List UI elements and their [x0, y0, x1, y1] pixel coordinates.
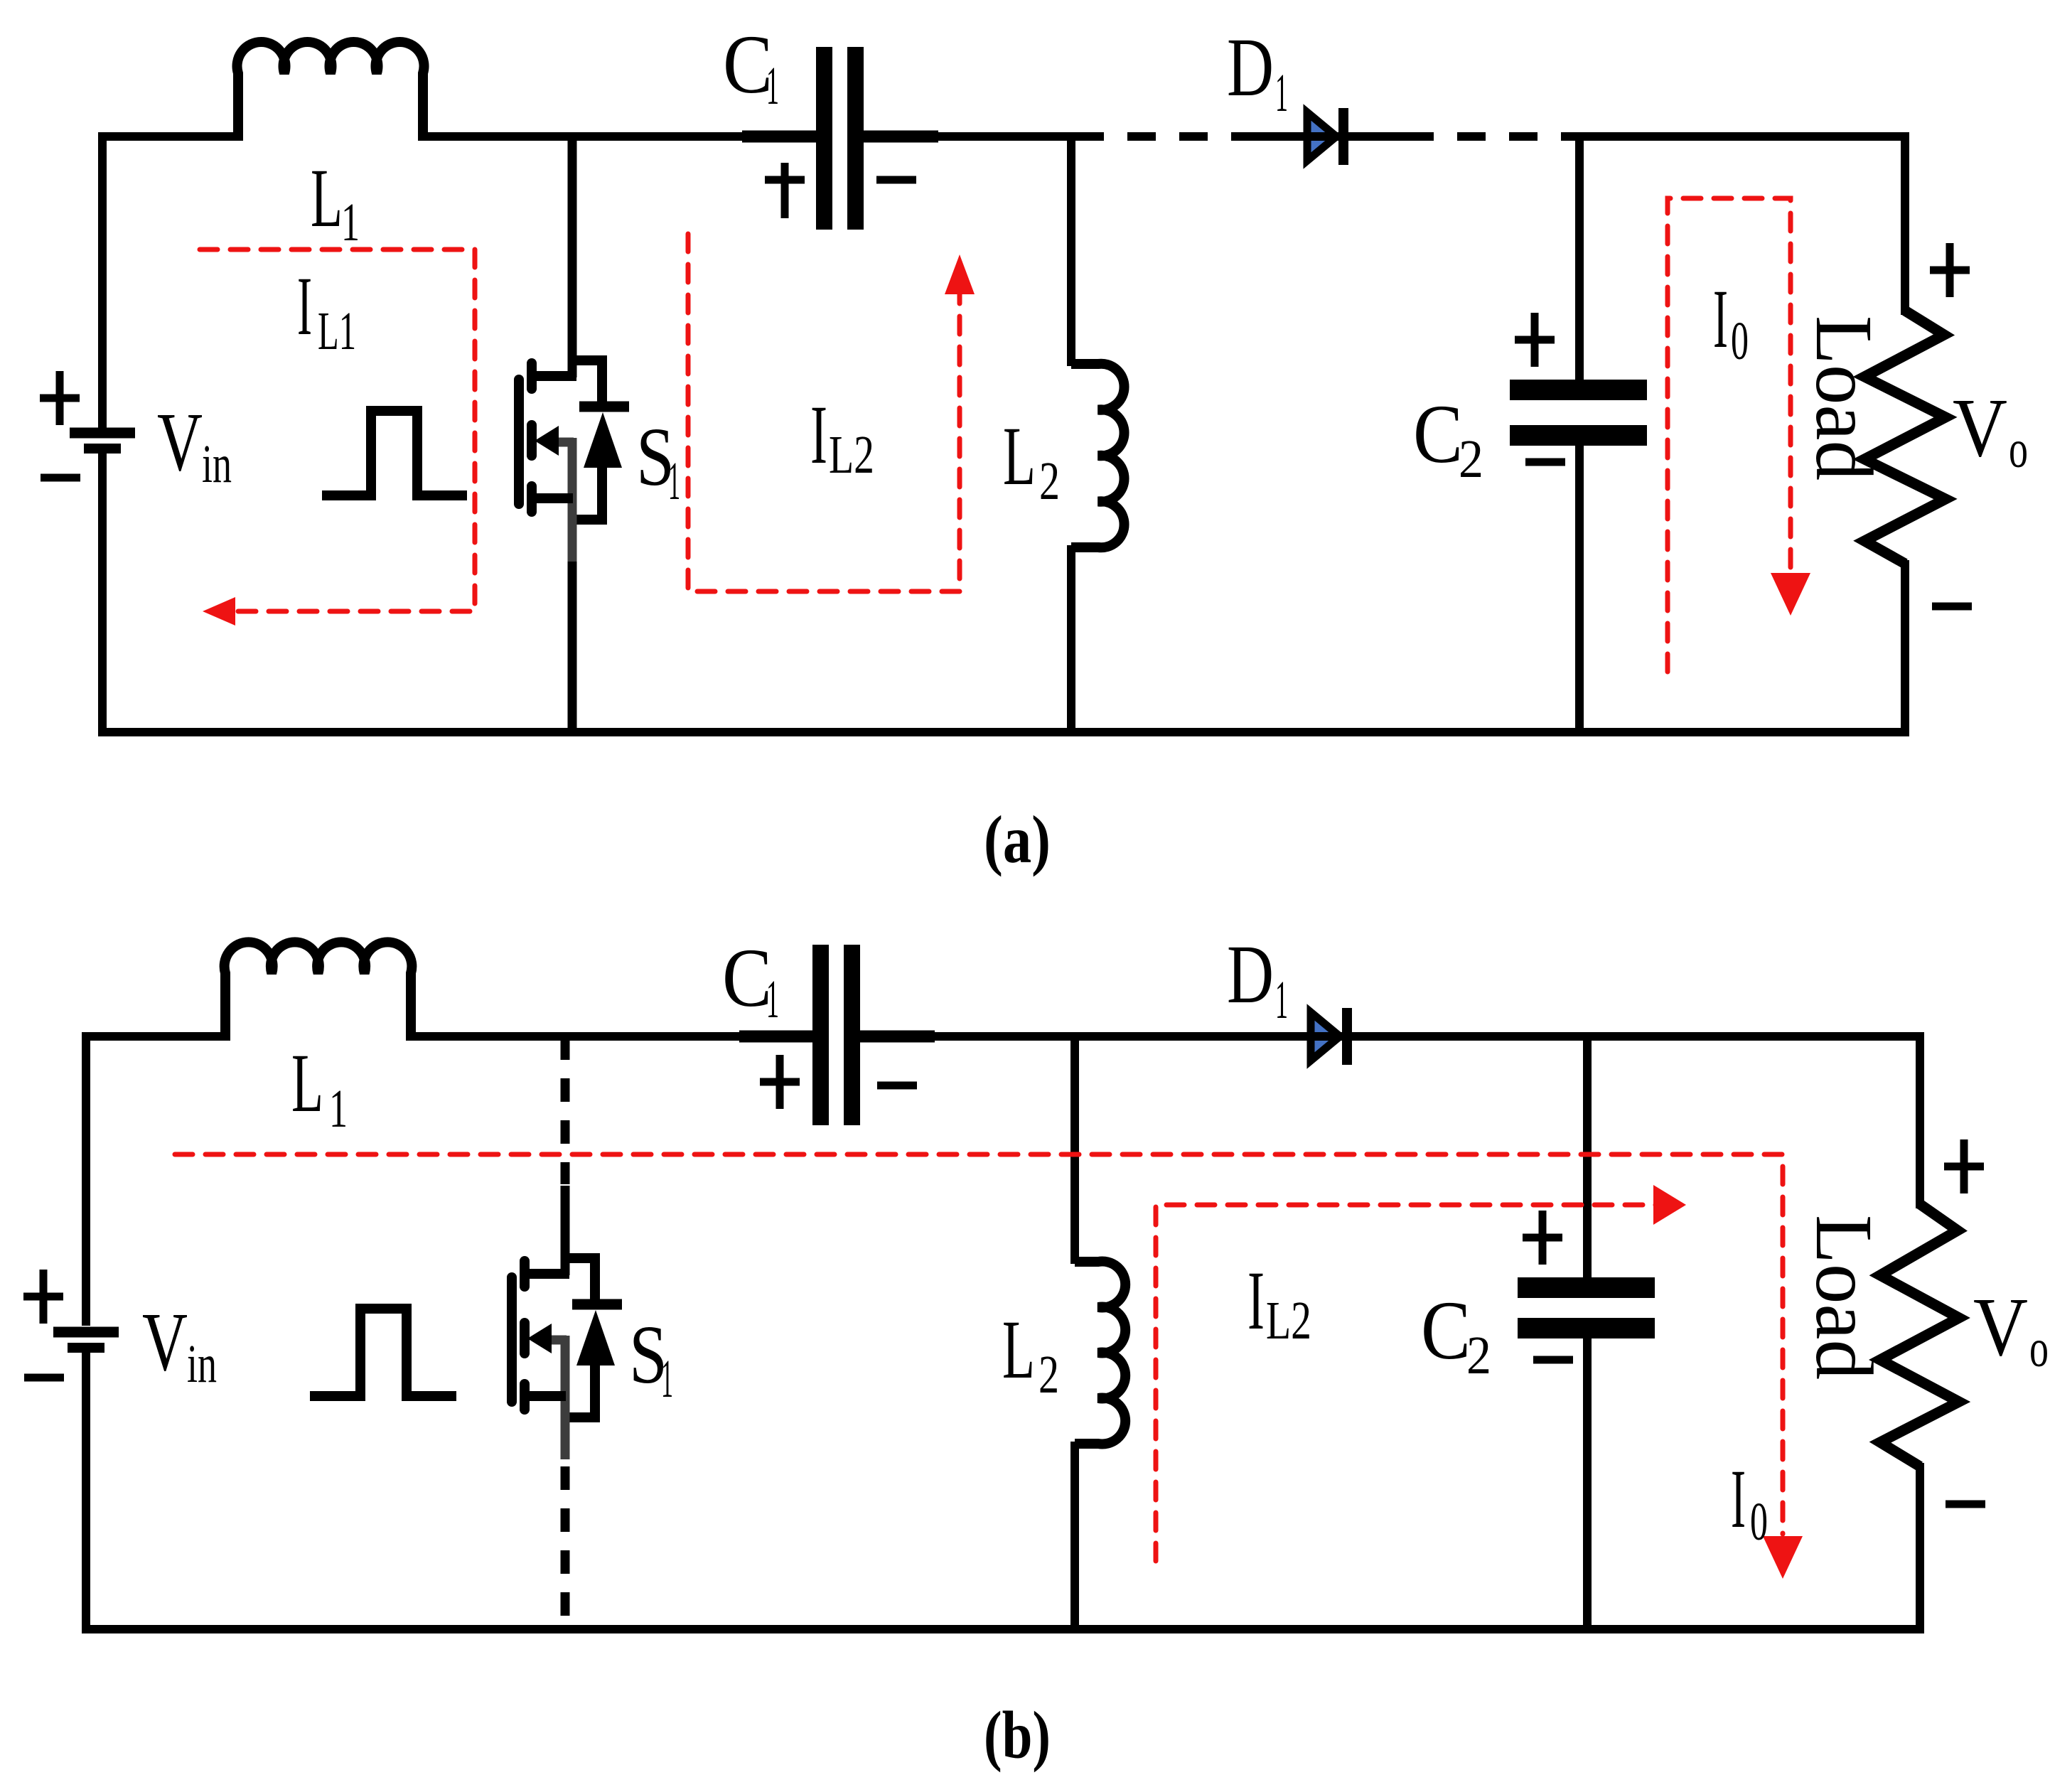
svg-text:V: V: [157, 395, 203, 488]
wire: dashed top rail, D1 to C2 node (a, no current): [1405, 132, 1572, 141]
wire: drain of S1 (a): [568, 136, 577, 377]
arrowhead of IL2 loop (a): [945, 254, 975, 294]
svg-text:I: I: [297, 259, 312, 353]
plus sign of Vo (a): [1930, 243, 1970, 297]
current loop IL2 (a), red dashed: [688, 234, 960, 591]
current loop IL1 (a), red dashed: [189, 250, 475, 611]
wire: L2 upper lead (a): [1067, 136, 1075, 366]
svg-text:L: L: [1002, 1303, 1035, 1396]
wire: load down to bottom rail, bottom rail and back to Vin - terminal (a): [102, 452, 1905, 732]
wire: L2 lower lead to bottom rail (b): [1070, 1442, 1079, 1629]
svg-text:L: L: [311, 151, 343, 245]
svg-text:o: o: [2029, 1319, 2049, 1378]
plus sign of C2 (b): [1523, 1211, 1562, 1265]
svg-text:I: I: [810, 388, 827, 481]
svg-text:1: 1: [1275, 970, 1288, 1030]
svg-text:2: 2: [1039, 1345, 1059, 1405]
wire: C2 upper lead (a): [1575, 136, 1584, 382]
wire: left vertical, Vin + terminal to top-left corner and to L1 (b): [86, 1036, 229, 1326]
svg-text:o: o: [2009, 419, 2028, 479]
minus sign of C2 (b): [1533, 1356, 1573, 1364]
svg-text:1: 1: [661, 1349, 673, 1409]
cathode bar of D1 (a): [1338, 108, 1348, 165]
svg-text:C: C: [722, 931, 772, 1024]
svg-text:(a): (a): [984, 802, 1051, 877]
minus sign of C2 (a): [1525, 458, 1565, 466]
svg-text:Load: Load: [1799, 316, 1889, 481]
wire: C1 left lead (b): [739, 1031, 812, 1043]
svg-text:L1: L1: [318, 301, 356, 361]
wire: top rail C2 node to top-right corner down to load (b): [1587, 1036, 1920, 1208]
wire: C1 left lead (a): [742, 131, 816, 143]
capacitor C1 (a): [816, 47, 832, 230]
svg-text:0: 0: [1750, 1492, 1768, 1552]
wire: C1 right lead (b): [860, 1031, 935, 1043]
current loop IL2 (b), red dashed: [1156, 1205, 1656, 1561]
wire: drain of S1 (b) (dashed, switch off): [561, 1036, 570, 1184]
svg-text:(b): (b): [984, 1697, 1051, 1773]
current path input loop (b), red dashed: [175, 1154, 1783, 1534]
svg-text:in: in: [202, 434, 232, 494]
wire: C2 lower lead to bottom rail (a): [1575, 444, 1584, 732]
svg-text:1: 1: [341, 193, 360, 252]
transistor S1 (MOSFET with body diode) (a): [519, 360, 629, 562]
current loop Io (a), red dashed: [1668, 198, 1791, 672]
resistor Load (b): [1880, 1204, 1959, 1466]
plus sign of Vin (b): [23, 1270, 63, 1324]
svg-text:1: 1: [329, 1079, 348, 1139]
wire: top rail C1 through D1 to C2 node (b): [935, 1032, 1587, 1041]
svg-text:C: C: [723, 18, 773, 111]
svg-text:2: 2: [1459, 429, 1483, 489]
wire: left vertical, Vin + terminal to top-left corner and to L1 (a): [102, 136, 242, 428]
diode D1 (b): [1311, 1012, 1340, 1061]
svg-text:2: 2: [1466, 1326, 1491, 1385]
wire: dashed top rail, L2 node to D1 anode (a, no current): [1075, 132, 1255, 141]
svg-text:I: I: [1713, 272, 1728, 365]
svg-text:1: 1: [766, 56, 779, 116]
svg-text:V: V: [1973, 1280, 2028, 1373]
wire: source of S1 (a): [568, 562, 577, 732]
wire: drain lead of S1 (b): [561, 1186, 570, 1275]
inductor L1 (b): [225, 942, 412, 1041]
plus sign of C1 (a): [765, 163, 805, 218]
svg-text:L: L: [1003, 409, 1036, 503]
arrowhead of IL1 loop (a): [203, 597, 235, 626]
capacitor C1 (b): [812, 945, 829, 1125]
wire: source of S1 (b) (dashed, switch off): [561, 1466, 570, 1629]
inductor L1 (a): [237, 42, 424, 141]
arrowhead of Io loop (a): [1771, 573, 1810, 616]
wire: top rail from L1 to C1 (b): [411, 1032, 812, 1041]
wire: C1 right lead (a): [864, 131, 938, 143]
svg-text:D: D: [1227, 928, 1274, 1021]
minus sign of Vo (b): [1946, 1501, 1985, 1508]
wire: C2 lower lead to bottom rail (b): [1583, 1336, 1592, 1629]
svg-text:I: I: [1731, 1452, 1746, 1545]
svg-text:V: V: [142, 1295, 188, 1388]
inductor L2 (b): [1075, 1262, 1125, 1444]
plus sign of C1 (b): [760, 1055, 800, 1109]
minus sign of Vin (b): [24, 1374, 64, 1382]
wire: top rail from L1 to C1 (a): [423, 132, 816, 141]
svg-text:0: 0: [1731, 311, 1749, 371]
battery Vin (a): [70, 428, 135, 439]
svg-text:L: L: [291, 1036, 323, 1130]
svg-text:L2: L2: [829, 425, 874, 485]
minus sign of Vin (a): [41, 474, 80, 482]
wire: top rail C1 to L2 node (a): [938, 132, 1075, 141]
plus sign of C2 (a): [1515, 313, 1555, 367]
minus sign of Vo (a): [1932, 603, 1972, 611]
svg-text:V: V: [1953, 381, 2007, 474]
gate pulse waveform (a): [322, 411, 467, 495]
svg-text:L2: L2: [1266, 1291, 1311, 1351]
svg-text:C: C: [1421, 1284, 1471, 1377]
plus sign of Vin (a): [40, 371, 80, 425]
svg-text:Load: Load: [1799, 1215, 1889, 1380]
wire: L2 lower lead to bottom rail (a): [1067, 545, 1075, 732]
wire: top rail C2 node to top-right corner down to load (a): [1572, 136, 1905, 315]
wire: C2 upper lead (b): [1583, 1036, 1592, 1279]
minus sign of C1 (b): [877, 1082, 917, 1090]
wire: D1 anode and cathode leads (a): [1255, 132, 1405, 141]
svg-text:C: C: [1413, 387, 1463, 481]
resistor Load (a): [1864, 311, 1946, 564]
arrowhead of input current loop (b): [1763, 1536, 1803, 1579]
svg-text:in: in: [187, 1334, 217, 1394]
svg-text:1: 1: [668, 451, 680, 511]
capacitor C2 (b): [1518, 1277, 1655, 1298]
minus sign of C1 (a): [876, 176, 916, 184]
battery Vin (b): [53, 1327, 119, 1338]
cathode bar of D1 (b): [1342, 1008, 1352, 1065]
diode D1 (a): [1307, 112, 1336, 161]
inductor L2 (a): [1071, 364, 1125, 547]
gate pulse waveform (b): [310, 1309, 456, 1396]
svg-text:2: 2: [1039, 451, 1060, 511]
svg-text:1: 1: [1275, 63, 1288, 123]
wire: load down to bottom rail, bottom rail and back to Vin - terminal (b): [86, 1351, 1920, 1629]
arrowhead of IL2 loop (b): [1653, 1185, 1686, 1225]
capacitor C2 (a): [1510, 380, 1647, 400]
svg-text:1: 1: [766, 970, 779, 1029]
svg-text:D: D: [1227, 21, 1274, 114]
plus sign of Vo (b): [1944, 1139, 1984, 1193]
transistor S1 (MOSFET with body diode) (b): [512, 1258, 622, 1459]
svg-text:I: I: [1247, 1254, 1265, 1347]
wire: L2 upper lead (b): [1070, 1036, 1079, 1264]
